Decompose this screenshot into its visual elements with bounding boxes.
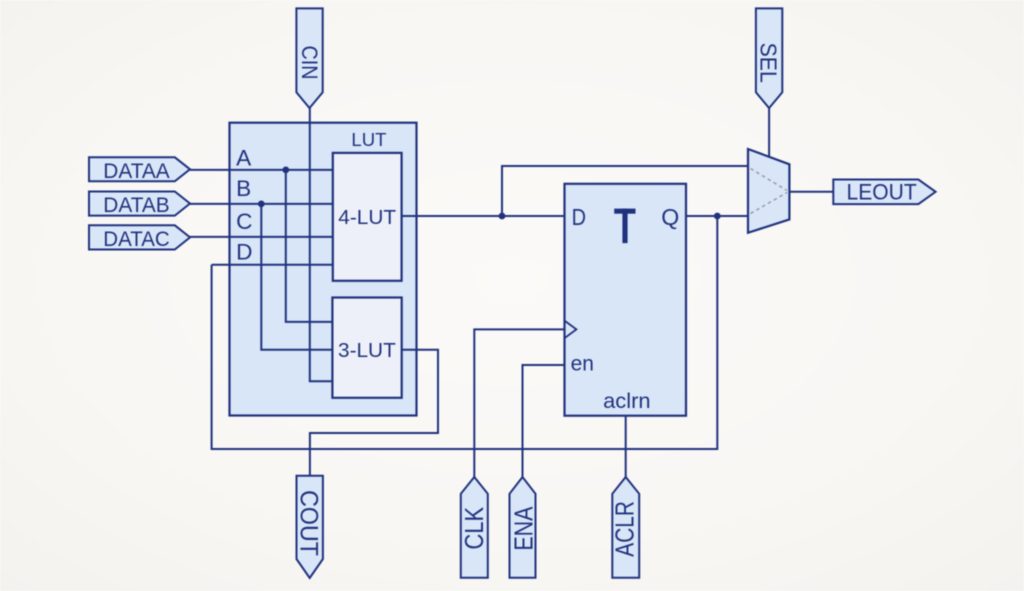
svg-text:aclrn: aclrn <box>603 390 651 413</box>
svg-text:DATAA: DATAA <box>103 160 169 183</box>
svg-text:LUT: LUT <box>351 129 387 150</box>
svg-text:C: C <box>236 209 252 234</box>
svg-text:B: B <box>236 176 251 201</box>
svg-text:ACLR: ACLR <box>610 501 640 557</box>
svg-text:Q: Q <box>661 204 679 230</box>
svg-text:D: D <box>572 204 586 230</box>
svg-text:D: D <box>236 240 252 265</box>
svg-text:CIN: CIN <box>297 45 322 79</box>
svg-text:SEL: SEL <box>756 43 782 83</box>
svg-text:4-LUT: 4-LUT <box>338 207 396 229</box>
svg-text:3-LUT: 3-LUT <box>338 340 396 362</box>
svg-text:LEOUT: LEOUT <box>847 179 917 204</box>
svg-text:CLK: CLK <box>459 506 489 549</box>
svg-text:ENA: ENA <box>508 506 538 551</box>
svg-text:DATAC: DATAC <box>103 228 169 251</box>
svg-text:en: en <box>571 350 594 375</box>
svg-text:A: A <box>236 145 252 170</box>
svg-text:DATAB: DATAB <box>103 194 169 217</box>
svg-text:COUT: COUT <box>295 490 323 556</box>
